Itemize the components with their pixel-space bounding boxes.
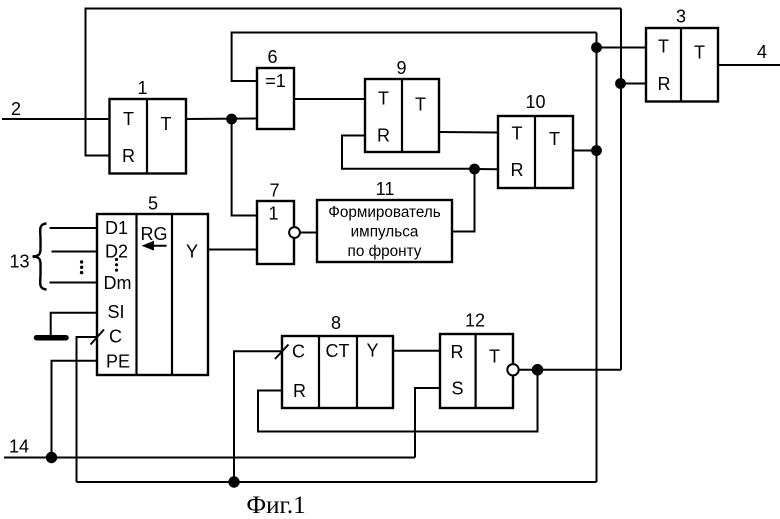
inverter bubble of gate 7 [289,227,300,238]
svg-text:C: C [292,342,305,362]
block 11: edge pulse former [317,200,452,262]
label 11 [376,179,395,199]
ellipsis dots between D2 and Dm input wires [80,260,83,274]
svg-text:Фиг.1: Фиг.1 [246,492,305,519]
wire: data input D2 [52,251,98,253]
wire: bottom bus up to C input of register 5 [77,337,98,482]
svg-text:Y: Y [366,341,378,361]
wire: PE input down to line 14 [52,361,98,458]
wire: reset line left and up to R of flip-flop 9 [342,136,475,169]
inverter bubble of trigger 12 [507,364,518,375]
svg-text:12: 12 [465,311,485,331]
svg-text:PE: PE [106,352,130,372]
node B: junction at R input of flip-flop 3 [615,78,626,89]
svg-text:R: R [377,126,390,146]
wire: data input Dm [50,282,98,284]
svg-text:9: 9 [396,58,406,78]
svg-text:13: 13 [9,252,29,272]
svg-text:14: 14 [9,437,29,457]
figure caption [246,492,305,519]
label 8 [331,313,341,333]
svg-text:T: T [512,124,523,144]
svg-text:T: T [161,114,172,134]
flip-flop 3 (T trigger, output stage) [646,28,718,102]
svg-text:1: 1 [268,204,278,224]
label 7 [269,181,279,201]
edge-trigger slash on counter C input [275,345,289,360]
svg-text:S: S [451,379,463,399]
ground/constant bar symbol [37,335,67,341]
svg-text:6: 6 [267,47,277,67]
wire: register 5 Y output to gate 7 lower input [208,249,257,251]
wire: trigger 12 inverted output to feedback vertical x=621 [519,369,621,371]
label 3 [676,7,686,27]
wire: reset line to R of flip-flop 10 [475,168,499,170]
svg-text:4: 4 [757,42,767,62]
wire: node C to T input of flip-flop 3 [597,47,647,49]
wire: block 11 output up to R inputs of flip-flops 9 and 10 [452,169,475,232]
gate 7 (repeater with inverting output) [257,201,294,264]
svg-text:T: T [549,129,560,149]
svg-text:10: 10 [525,92,545,112]
svg-text:T: T [415,95,426,115]
edge-trigger slash on register C input [91,330,105,345]
svg-text:Dm: Dm [104,273,132,293]
svg-text:R: R [658,74,671,94]
svg-text:R: R [122,146,135,166]
svg-text:5: 5 [148,194,158,214]
svg-text:11: 11 [376,179,395,199]
svg-text:импульса: импульса [351,224,419,241]
wire: bottom bus run from register C input to vertical bus [77,481,597,483]
label input 2 [11,99,21,119]
wire: SI input from constant level [51,313,97,336]
svg-text:3: 3 [676,7,686,27]
wire: input line 14 [4,457,415,459]
wire: clock bus from counter output vertical to XOR 6 top input [232,33,597,82]
brace for data bus 13 [33,224,47,290]
wire: node A down to element 7 upper input [232,119,257,216]
label 12 [465,311,485,331]
node D: junction at flip-flop 10 output [591,145,602,156]
svg-text:R: R [293,381,306,401]
wire: XOR 6 output to T input of flip-flop 9 [294,98,365,100]
register 5 (RG) [97,214,208,375]
svg-text:T: T [694,43,705,63]
svg-text:T: T [658,37,669,57]
node G: junction of line 14 and PE branch [46,452,57,463]
wire: flip-flop 10 output to node D [573,150,597,152]
flip-flop 1 (T trigger) [110,99,187,174]
node F: junction on R reset line [469,164,480,175]
wire: line 14 up to S input of trigger 12 [415,388,440,458]
XOR gate 6 [257,68,294,129]
svg-text:T: T [489,347,500,367]
svg-text:=1: =1 [265,71,286,91]
svg-text:Формирователь: Формирователь [328,204,441,221]
label 6 [267,47,277,67]
svg-text:Y: Y [186,242,198,262]
wire: counter 8 output Y to R input of trigger 12 [393,350,440,352]
wire: input 2 to T input of flip-flop 1 [2,118,110,120]
svg-text:R: R [451,342,464,362]
svg-text:T: T [123,109,134,129]
wire: flip-flop 9 output to T input of flip-flop 10 [439,131,498,134]
wire: right vertical of feedback (x=621) down to element 12 output level [620,9,622,371]
svg-text:T: T [378,89,389,109]
label 5 [148,194,158,214]
svg-text:1: 1 [137,78,147,98]
svg-text:D1: D1 [105,218,128,238]
node C: junction to T input of flip-flop 3 [591,42,602,53]
flip-flop 10 (T trigger) [498,116,573,188]
wire: feedback from element 12 output, left vertical + top run, to R of flip-flop 1 [86,9,622,156]
wire: gate 7 inverted output to block 11 input [300,232,317,234]
wire: flip-flop 3 output to terminal 4 [718,64,780,66]
wire: data input D1 [50,227,98,229]
svg-text:2: 2 [11,99,21,119]
svg-text:по фронту: по фронту [348,243,422,260]
ellipsis dots inside register between D2 and Dm [115,258,118,272]
label bus 13 [9,252,29,272]
svg-text:C: C [109,327,122,347]
node A: junction on flip-flop 1 output [226,114,237,125]
svg-text:R: R [511,160,524,180]
svg-text:7: 7 [269,181,279,201]
node H: junction on trigger 12 output [532,364,544,376]
wire: flip-flop 1 output to XOR 6 lower input [186,118,257,121]
label 10 [525,92,545,112]
RS trigger 12 [440,334,513,408]
wire: node E up to C input of counter 8 [234,351,282,482]
svg-text:SI: SI [107,302,124,322]
label 1 [137,78,147,98]
wire: main vertical bus x=596.5 [596,33,598,483]
label output 4 [757,42,767,62]
node E: junction on bottom bus to counter 8 C input [228,476,239,487]
counter 8 (CT) [282,336,393,408]
wire: node B to R input of flip-flop 3 [621,83,646,85]
flip-flop 9 (T trigger) [365,79,439,152]
wire: node H down and left to R input of counter 8 [258,370,538,432]
label 9 [396,58,406,78]
label input 14 [9,437,29,457]
svg-text:CT: CT [326,341,350,361]
svg-text:8: 8 [331,313,341,333]
arrow inside RG column (shift direction) [142,241,167,251]
